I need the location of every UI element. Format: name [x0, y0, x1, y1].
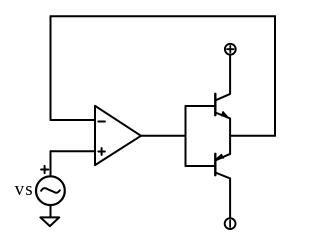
wire op-amp output: [141, 135, 186, 137]
wire noninverting input: [51, 150, 96, 152]
transistor Q1 emitter arrow: [222, 112, 228, 117]
wire output node to right vertical: [230, 135, 275, 137]
op-amp U1 minus input label: [98, 120, 105, 122]
wire base Q1: [186, 105, 215, 107]
ground: [40, 217, 59, 226]
wire inverting input: [51, 119, 96, 121]
wire source bottom lead: [50, 206, 52, 217]
transistor Q2 emitter: [215, 136, 230, 161]
svg-text:vs: vs: [15, 179, 34, 200]
wire base Q2: [186, 165, 215, 167]
source VS sine wave: [41, 188, 60, 193]
transistor Q2 base bar: [214, 154, 216, 175]
negative supply terminal: [225, 218, 236, 229]
source VS plus polarity label: [41, 166, 48, 173]
positive supply terminal: [225, 44, 236, 55]
wire top feedback: [51, 15, 276, 17]
wire right feedback vertical: [274, 16, 276, 136]
transistor Q2 collector: [215, 173, 230, 218]
transistor Q1 base bar: [214, 94, 216, 115]
op-amp U1 plus input label: [98, 148, 105, 155]
op-amp U1: [95, 106, 141, 165]
transistor Q1 collector: [215, 55, 230, 100]
wire source top lead: [50, 151, 52, 175]
source VS circle: [36, 176, 65, 205]
transistor Q1 emitter: [215, 113, 230, 136]
wire left feedback vertical: [50, 16, 52, 120]
wire base join vertical: [185, 106, 187, 166]
transistor Q2 emitter arrow: [217, 154, 224, 158]
